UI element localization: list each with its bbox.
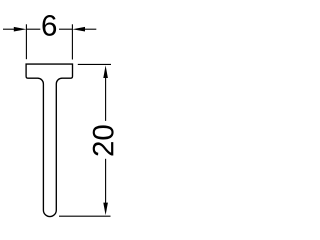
dimension 6: extension line right <box>71 24 73 59</box>
dimension 6: right leader line <box>84 28 97 30</box>
dimension 6: inner segment right <box>59 28 72 30</box>
dimension 20: upper arrowhead (points up) <box>103 65 108 78</box>
dimension 6: value text <box>43 15 57 36</box>
dimension 6: right arrowhead (points left) <box>72 27 85 32</box>
technical drawing: T-profile pin with dimensions 6 (width) and 20 (height) <box>0 0 133 228</box>
dimension 20: extension line top <box>78 63 111 65</box>
dimension 6: left arrowhead (points right) <box>14 27 27 32</box>
dimension 20: extension line bottom <box>59 215 111 217</box>
dimension 6: extension line left <box>25 24 27 59</box>
dimension 20: value text digit 0 <box>93 125 114 139</box>
dimension 20: lower arrowhead (points down) <box>103 203 108 216</box>
dimension 20: lower dim line segment <box>105 159 107 204</box>
dimension 20: value text (rotated) <box>93 142 114 155</box>
part outline: T-shaped profile <box>26 64 72 216</box>
dimension 20: upper dim line segment <box>105 77 107 121</box>
dimension 6: inner segment left <box>26 28 40 30</box>
dimension 6: left leader line <box>3 28 16 30</box>
